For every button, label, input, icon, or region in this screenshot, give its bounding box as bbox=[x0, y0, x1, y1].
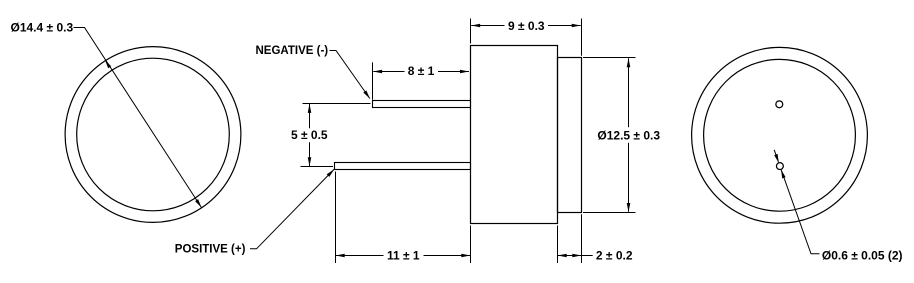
upper hole bbox=[776, 101, 783, 108]
arrowhead 9±0.3 right bbox=[572, 24, 581, 28]
lower hole bbox=[776, 163, 783, 170]
arrowhead Ø12.5 bottom bbox=[627, 203, 631, 212]
9±0.3 dim line bbox=[471, 25, 504, 27]
2±0.2 ext line right bbox=[581, 214, 583, 263]
11±1 ext line left bbox=[335, 172, 337, 264]
right view outer circle bbox=[692, 47, 868, 223]
Ø0.6 opposite stub bbox=[774, 150, 778, 162]
svg-text:8 ± 1: 8 ± 1 bbox=[408, 64, 435, 78]
Ø0.6 leader bbox=[781, 169, 820, 254]
POSITIVE leader bbox=[250, 169, 334, 248]
arrowhead 11±1 left bbox=[336, 254, 345, 258]
negative lead (top) bbox=[373, 101, 471, 108]
Ø14.4 leader/diameter line bbox=[74, 28, 202, 208]
11±1 ext line right bbox=[470, 226, 472, 264]
Ø12.5 ext line bottom bbox=[583, 212, 636, 214]
NEGATIVE leader bbox=[330, 51, 370, 99]
flange rectangle side view bbox=[558, 58, 582, 213]
svg-text:9 ± 0.3: 9 ± 0.3 bbox=[508, 19, 545, 33]
arrowhead Ø0.6 leader bbox=[781, 169, 786, 178]
5±0.5 dim line bbox=[309, 104, 311, 128]
arrowhead NEGATIVE leader bbox=[363, 90, 370, 98]
Ø12.5 dim line bbox=[628, 58, 630, 127]
9±0.3 ext line left bbox=[470, 19, 472, 44]
svg-text:2 ± 0.2: 2 ± 0.2 bbox=[596, 249, 633, 263]
8±1 dim line bbox=[373, 71, 404, 73]
2±0.2 dim line + tail to text bbox=[558, 255, 593, 257]
5±0.5 ext line bottom bbox=[301, 166, 334, 168]
8±1 ext line bbox=[372, 62, 374, 99]
arrowhead 11±1 right bbox=[461, 254, 470, 258]
svg-text:POSITIVE (+): POSITIVE (+) bbox=[175, 243, 246, 255]
2±0.2 ext line left bbox=[557, 226, 559, 264]
body rectangle side view bbox=[471, 46, 558, 224]
left view inner circle (Ø12.5) bbox=[77, 58, 230, 211]
11±1 dim line bbox=[336, 255, 384, 257]
Ø12.5 ext line top bbox=[583, 57, 636, 59]
arrowhead 5±0.5 top bbox=[308, 104, 312, 113]
svg-text:Ø0.6 ± 0.05 (2): Ø0.6 ± 0.05 (2) bbox=[822, 248, 903, 262]
9±0.3 ext line right bbox=[581, 19, 583, 56]
arrowhead 8±1 left bbox=[373, 70, 382, 74]
svg-text:Ø12.5 ± 0.3: Ø12.5 ± 0.3 bbox=[597, 128, 660, 142]
left view outer circle (body Ø14.4) bbox=[65, 47, 241, 223]
arrowhead Ø12.5 top bbox=[627, 58, 631, 67]
svg-text:11 ± 1: 11 ± 1 bbox=[387, 249, 420, 263]
svg-text:Ø14.4 ± 0.3: Ø14.4 ± 0.3 bbox=[11, 21, 74, 35]
arrowhead 8±1 right bbox=[460, 70, 469, 74]
positive lead (bottom) bbox=[335, 163, 471, 170]
arrowhead 2±0.2 left bbox=[558, 254, 567, 258]
arrowhead Ø0.6 stub bbox=[774, 154, 779, 163]
arrowhead 9±0.3 left bbox=[471, 24, 480, 28]
5±0.5 ext line top bbox=[303, 103, 371, 105]
svg-text:5 ± 0.5: 5 ± 0.5 bbox=[291, 128, 328, 142]
right view inner circle bbox=[704, 59, 856, 211]
arrowhead 2±0.2 right bbox=[572, 254, 581, 258]
arrowhead POSITIVE leader bbox=[327, 169, 335, 177]
svg-text:NEGATIVE (-): NEGATIVE (-) bbox=[256, 45, 329, 57]
arrowhead Ø14.4 upper bbox=[105, 60, 111, 69]
arrowhead 5±0.5 bottom bbox=[308, 157, 312, 166]
arrowhead Ø14.4 lower bbox=[195, 199, 201, 208]
